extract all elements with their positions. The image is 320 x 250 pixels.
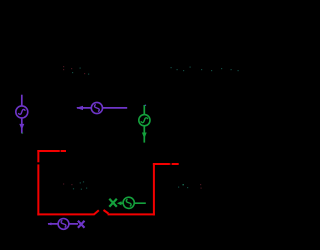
source I1 purple vertical left xyxy=(16,95,28,134)
terminal cross X5 xyxy=(109,199,117,207)
wire top-left dash red xyxy=(61,150,66,152)
source circle I4 xyxy=(58,219,69,230)
wire top-right horizontal red xyxy=(153,163,170,165)
wire gap residue top-right xyxy=(170,163,172,165)
wire crossing hop right diagonal xyxy=(104,210,109,214)
wire I1 vertical lead xyxy=(21,95,23,134)
source circle I2 xyxy=(91,102,102,113)
source I4 purple horizontal bottom xyxy=(48,219,85,230)
faint text anti-alias dots row 2 (impedance label) xyxy=(63,183,73,185)
source circle I3 xyxy=(139,115,150,126)
wire I4 horizontal lead xyxy=(48,223,78,225)
source circle I1 xyxy=(16,106,28,118)
wire top-right dash red xyxy=(172,163,179,165)
arrowhead I5 left xyxy=(117,201,122,205)
sine glyph I2 xyxy=(94,105,99,112)
terminal cross X4 xyxy=(78,221,85,228)
wire right vertical red xyxy=(153,163,155,215)
sine glyph I4 xyxy=(61,220,66,227)
source I2 purple horizontal xyxy=(76,102,127,113)
faint text anti-alias teal dots xyxy=(72,67,239,189)
sine glyph I1 xyxy=(18,109,25,114)
source I5 green horizontal bottom xyxy=(109,197,146,208)
sine glyph I3 xyxy=(141,118,148,123)
faint text anti-alias dots row 1 (labels) xyxy=(63,66,202,189)
wire crossing hop left diagonal xyxy=(94,210,99,215)
wire I2 horizontal lead xyxy=(77,107,127,109)
wire bottom horizontal red left part xyxy=(37,213,94,215)
arrowhead I2 left xyxy=(76,106,83,110)
arrowhead I1 down xyxy=(19,124,24,130)
sine glyph I5 xyxy=(126,199,131,206)
arrowhead I3 down xyxy=(142,133,147,139)
wire left vertical red lower segment xyxy=(37,164,39,215)
wire I5 horizontal lead xyxy=(121,202,146,204)
arrowhead I4 left small xyxy=(48,222,52,225)
wire top-left horizontal red xyxy=(37,150,59,152)
wire gap residue top-left xyxy=(60,150,61,152)
wire left vertical red upper segment xyxy=(37,150,39,162)
wire I3 vertical lead xyxy=(143,105,145,143)
speck green below arrow I1 xyxy=(22,132,23,133)
wire bottom horizontal red right part xyxy=(108,213,155,215)
source circle I5 xyxy=(123,197,134,208)
source I3 green vertical xyxy=(139,105,150,143)
speck blue near top of I3 lead xyxy=(145,105,146,106)
